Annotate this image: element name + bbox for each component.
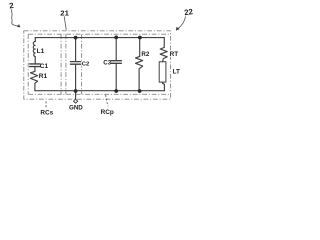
svg-text:GND: GND bbox=[69, 104, 83, 111]
svg-text:C3: C3 bbox=[103, 60, 111, 67]
svg-text:C1: C1 bbox=[40, 63, 49, 70]
svg-text:RCp: RCp bbox=[101, 109, 114, 116]
svg-text:R1: R1 bbox=[39, 73, 48, 80]
svg-text:RCs: RCs bbox=[40, 109, 53, 116]
svg-text:21: 21 bbox=[60, 8, 69, 17]
svg-text:RT: RT bbox=[170, 51, 179, 58]
svg-text:R2: R2 bbox=[141, 51, 149, 58]
svg-text:C2: C2 bbox=[82, 62, 89, 68]
svg-text:LT: LT bbox=[173, 69, 180, 76]
svg-text:L1: L1 bbox=[37, 48, 45, 55]
